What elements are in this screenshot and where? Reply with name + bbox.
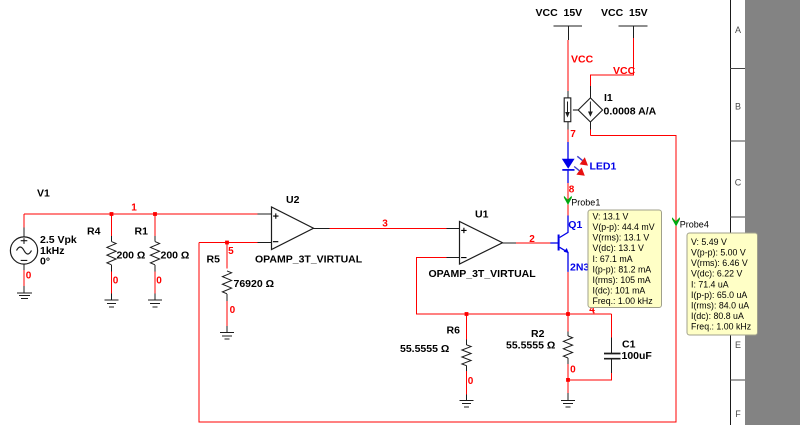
svg-text:0: 0 [156, 276, 162, 287]
svg-text:R1: R1 [135, 226, 149, 238]
svg-text:200 Ω: 200 Ω [117, 249, 146, 261]
svg-text:V: 5.49 V: V: 5.49 V [691, 237, 727, 247]
svg-text:I(p-p): 65.0 uA: I(p-p): 65.0 uA [691, 290, 747, 300]
svg-text:0: 0 [230, 305, 236, 316]
svg-text:LED1: LED1 [590, 160, 617, 172]
svg-text:0: 0 [468, 376, 474, 387]
svg-text:0: 0 [570, 365, 576, 376]
svg-text:Probe4: Probe4 [680, 220, 709, 230]
svg-text:V(dc): 6.22 V: V(dc): 6.22 V [691, 269, 742, 279]
svg-text:0: 0 [26, 271, 32, 282]
svg-text:0: 0 [113, 276, 119, 287]
svg-text:I(dc): 101 mA: I(dc): 101 mA [593, 286, 646, 296]
svg-text:V1: V1 [37, 188, 50, 200]
svg-text:Probe1: Probe1 [571, 198, 600, 208]
svg-text:U1: U1 [475, 208, 489, 220]
svg-text:55.5555 Ω: 55.5555 Ω [400, 343, 449, 355]
svg-text:8: 8 [569, 185, 575, 196]
svg-text:55.5555 Ω: 55.5555 Ω [506, 340, 555, 352]
svg-text:E: E [735, 340, 741, 350]
svg-text:7: 7 [570, 129, 576, 140]
svg-text:R6: R6 [447, 325, 461, 337]
svg-text:F: F [735, 409, 741, 419]
svg-text:VCC 15V: VCC 15V [601, 7, 648, 19]
svg-text:C1: C1 [622, 339, 636, 351]
svg-text:OPAMP_3T_VIRTUAL: OPAMP_3T_VIRTUAL [255, 254, 363, 266]
svg-text:U2: U2 [286, 194, 300, 206]
svg-text:Freq.: 1.00 kHz: Freq.: 1.00 kHz [593, 296, 653, 306]
svg-text:VCC: VCC [613, 65, 636, 77]
svg-text:100uF: 100uF [622, 350, 653, 362]
svg-text:VCC: VCC [571, 54, 594, 66]
svg-text:0°: 0° [40, 256, 50, 268]
svg-text:I(dc): 80.8 uA: I(dc): 80.8 uA [691, 311, 744, 321]
svg-text:V(rms): 13.1 V: V(rms): 13.1 V [593, 233, 650, 243]
svg-text:0.0008 A/A: 0.0008 A/A [604, 105, 657, 117]
svg-text:V(p-p): 5.00 V: V(p-p): 5.00 V [691, 248, 746, 258]
svg-text:B: B [735, 102, 741, 112]
svg-text:V(p-p): 44.4 mV: V(p-p): 44.4 mV [593, 222, 655, 232]
svg-text:R5: R5 [207, 254, 221, 266]
svg-text:OPAMP_3T_VIRTUAL: OPAMP_3T_VIRTUAL [429, 268, 537, 280]
svg-text:V(rms): 6.46 V: V(rms): 6.46 V [691, 258, 748, 268]
svg-text:V: 13.1 V: V: 13.1 V [593, 212, 629, 222]
svg-text:2: 2 [529, 234, 535, 245]
svg-text:I(rms): 84.0 uA: I(rms): 84.0 uA [691, 300, 749, 310]
svg-text:200 Ω: 200 Ω [161, 249, 190, 261]
svg-text:Freq.: 1.00 kHz: Freq.: 1.00 kHz [691, 322, 751, 332]
svg-text:VCC 15V: VCC 15V [536, 7, 583, 19]
svg-text:Q1: Q1 [568, 219, 582, 231]
svg-text:I: 67.1 mA: I: 67.1 mA [593, 254, 633, 264]
svg-text:76920 Ω: 76920 Ω [234, 278, 275, 290]
svg-text:I1: I1 [604, 92, 613, 104]
svg-text:5: 5 [228, 246, 234, 257]
svg-text:I: 71.4 uA: I: 71.4 uA [691, 279, 729, 289]
svg-text:A: A [735, 25, 741, 35]
svg-text:V(dc): 13.1 V: V(dc): 13.1 V [593, 243, 644, 253]
svg-text:R2: R2 [531, 328, 545, 340]
svg-text:I(rms): 105 mA: I(rms): 105 mA [593, 275, 651, 285]
svg-text:R4: R4 [87, 226, 101, 238]
svg-text:I(p-p): 81.2 mA: I(p-p): 81.2 mA [593, 264, 652, 274]
svg-text:3: 3 [382, 218, 388, 229]
svg-text:1: 1 [131, 203, 137, 214]
svg-text:C: C [735, 178, 742, 188]
